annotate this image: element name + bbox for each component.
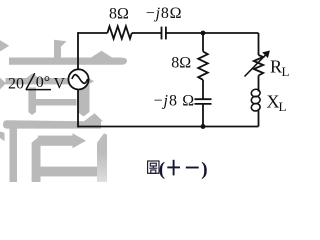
node dot top [201, 31, 206, 36]
watermark left vertical bar [10, 121, 18, 182]
caption (ten-one) [159, 159, 208, 180]
svg-text:20: 20 [8, 75, 24, 92]
svg-text:R: R [270, 56, 282, 76]
watermark chevron 2 [0, 78, 6, 90]
resistor 8ohm middle [198, 52, 208, 80]
wire top [78, 32, 259, 34]
resistor R 8ohm top [107, 26, 131, 38]
watermark band 2 with bump [6, 73, 95, 84]
svg-text:): ) [201, 159, 207, 180]
svg-text:L: L [279, 99, 287, 114]
watermark bar right of wire [78, 84, 90, 117]
svg-text:−j8 Ω: −j8 Ω [154, 92, 196, 109]
right branch wires [258, 33, 260, 127]
svg-text:8Ω: 8Ω [109, 6, 129, 23]
svg-text:−j8Ω: −j8Ω [146, 5, 183, 22]
arrow through RL [245, 51, 270, 77]
watermark band 1 with bump [9, 51, 127, 65]
svg-text:0°: 0° [36, 74, 50, 91]
capacitor -j8ohm middle [195, 99, 212, 104]
watermark box left bar [32, 135, 41, 182]
source V1 [68, 69, 88, 89]
watermark box right bar [97, 133, 107, 182]
watermark box mid bar [41, 167, 98, 177]
svg-text:8Ω: 8Ω [171, 55, 191, 72]
wire left [77, 32, 79, 127]
caption glyph tu (figure) [148, 161, 159, 173]
watermark band 3 with arrow bump [3, 113, 103, 128]
middle branch wires [202, 33, 204, 127]
wire bottom [78, 126, 259, 128]
label 20 angle 0 V [8, 73, 66, 92]
capacitor -j8ohm top [162, 27, 166, 40]
variable resistor RL [254, 55, 263, 76]
svg-text:(: ( [159, 159, 165, 180]
watermark pole and flag [54, 40, 67, 58]
watermark arm [36, 99, 77, 106]
watermark bar below angle [28, 88, 36, 116]
svg-text:L: L [282, 64, 290, 79]
watermark stroke A (top-left chevron) [0, 40, 9, 51]
inductor XL coil [251, 88, 261, 112]
watermark diagonal wedge [0, 132, 5, 142]
watermark box top arrow bar [38, 133, 86, 148]
node dot bottom [201, 124, 206, 129]
svg-text:V: V [54, 75, 66, 92]
